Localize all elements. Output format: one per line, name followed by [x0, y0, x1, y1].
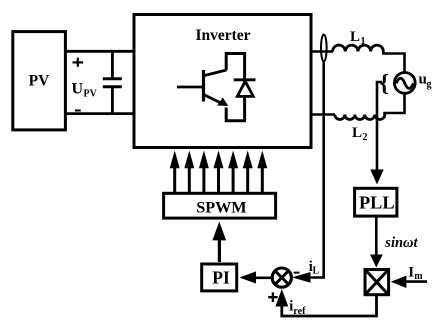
gate drive arrow 4 (SPWM to inverter): [214, 151, 224, 194]
capacitor C (DC link): [103, 51, 122, 113]
svg-text:2: 2: [363, 132, 368, 143]
SPWM block: [164, 193, 276, 218]
wire PLL to multiplier: [375, 217, 378, 257]
svg-text:PLL: PLL: [359, 193, 395, 213]
bar: [202, 70, 205, 102]
arrowhead iL into summer: [292, 272, 311, 283]
wire inverter top output: [311, 50, 333, 53]
inductor L1: [333, 45, 384, 51]
gate drive arrow 5 (SPWM to inverter): [228, 151, 238, 194]
PI block: [202, 264, 237, 291]
svg-text:L: L: [352, 125, 362, 141]
collector diagonal: [205, 70, 227, 76]
wire L1 to source: [383, 52, 404, 73]
emitter diagonal: [205, 95, 223, 104]
current sensor (CT ellipse): [321, 35, 327, 62]
wire PI to SPWM: [218, 239, 221, 262]
label L1: [350, 29, 366, 47]
gate drive arrow 2 (SPWM to inverter): [184, 151, 194, 194]
label ug: [419, 72, 432, 91]
Inverter block: [134, 15, 311, 148]
arrowhead into SPWM: [212, 222, 226, 241]
gate drive arrow 3 (SPWM to inverter): [199, 151, 209, 194]
ac source ug: [394, 73, 415, 94]
label - (DC bus minus): [75, 110, 81, 112]
svg-text:U: U: [72, 81, 84, 98]
arrowhead into PI: [240, 271, 257, 283]
gate drive arrow 1 (SPWM to inverter): [170, 151, 180, 194]
svg-text:L: L: [313, 266, 320, 277]
arrowhead Im into multiplier: [391, 276, 407, 288]
arrowhead into multiplier: [370, 255, 383, 268]
svg-text:{: {: [380, 71, 389, 97]
svg-text:sinωt: sinωt: [384, 235, 418, 251]
wire summer to PI: [254, 276, 272, 279]
label iL: [309, 259, 320, 277]
gate lead: [177, 86, 203, 89]
wire source bottom to L2: [385, 93, 405, 114]
label + (summer plus): [268, 292, 278, 302]
svg-text:ref: ref: [293, 306, 306, 317]
wire PV bottom to inverter: [65, 112, 135, 115]
label L2: [352, 125, 368, 143]
wire iL feedback from CT: [307, 62, 324, 278]
svg-text:SPWM: SPWM: [196, 199, 246, 217]
label - (summer minus): [294, 272, 300, 274]
wire inverter bottom output: [311, 113, 335, 116]
label iref: [289, 298, 306, 317]
collector/diode loop: [226, 54, 244, 121]
wire brace to PLL: [377, 82, 382, 171]
wire PV top to inverter: [65, 50, 135, 53]
svg-text:g: g: [427, 79, 432, 90]
wire multiplier bottom to iref: [282, 296, 377, 316]
arrowhead into PLL: [370, 170, 383, 185]
svg-text:PV: PV: [29, 73, 50, 90]
svg-text:PV: PV: [84, 89, 98, 100]
transistor IGBT (inside inverter): [177, 54, 256, 121]
arrowhead iref into summer: [275, 289, 288, 307]
wire Im into multiplier: [405, 280, 427, 283]
emitter arrowhead: [217, 98, 228, 107]
inductor L2: [335, 115, 385, 120]
svg-text:PI: PI: [212, 268, 230, 288]
multiplier (X box): [365, 270, 389, 295]
diode D (anti-parallel): [234, 80, 256, 97]
svg-text:L: L: [350, 29, 360, 45]
PLL block: [355, 188, 397, 216]
gate drive arrow 6 (SPWM to inverter): [243, 151, 253, 194]
svg-text:1: 1: [361, 36, 366, 47]
label U_PV: [72, 81, 98, 100]
PV block: [13, 32, 66, 130]
svg-text:Inverter: Inverter: [195, 27, 250, 44]
gate drive arrow 7 (SPWM to inverter): [257, 151, 267, 194]
summer (circle with X): [272, 268, 291, 287]
label Im: [408, 265, 423, 282]
label + (DC bus plus): [73, 58, 84, 67]
